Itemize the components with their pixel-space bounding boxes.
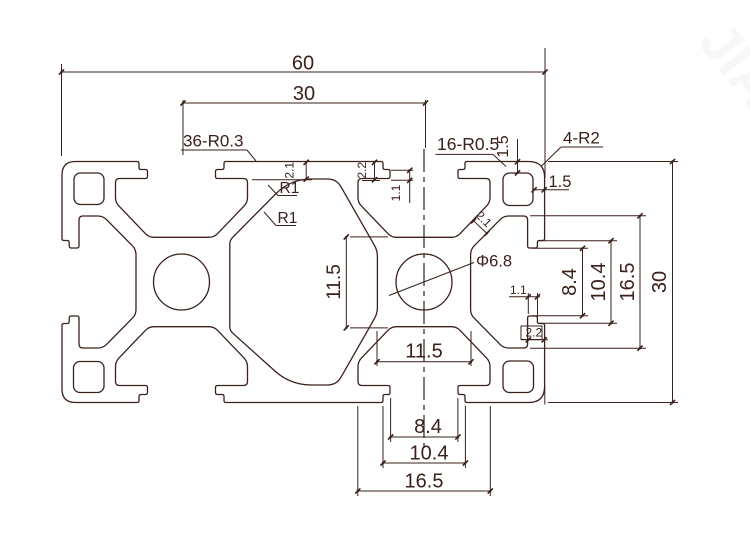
svg-text:1.5: 1.5 xyxy=(495,135,512,157)
svg-text:16.5: 16.5 xyxy=(405,471,444,493)
chamber hole top-right xyxy=(503,173,533,206)
svg-text:1.1: 1.1 xyxy=(389,184,403,201)
svg-text:2.1: 2.1 xyxy=(283,162,297,179)
svg-text:16-R0.5: 16-R0.5 xyxy=(437,134,499,154)
svg-text:8.4: 8.4 xyxy=(414,416,442,438)
svg-text:4-R2: 4-R2 xyxy=(563,129,600,148)
svg-text:Φ6.8: Φ6.8 xyxy=(476,253,512,271)
svg-text:30: 30 xyxy=(293,83,315,105)
dim 60 top xyxy=(61,64,63,156)
dim 11.5 vert mid xyxy=(350,236,388,238)
svg-text:30: 30 xyxy=(649,271,671,293)
chamber hole bottom-right xyxy=(503,361,534,393)
chamber hole top-left xyxy=(74,173,104,205)
dim 10.4 bottom xyxy=(382,406,384,468)
dim 8.4 bottom xyxy=(390,398,392,442)
dim 8.4 right xyxy=(532,247,588,249)
svg-text:60: 60 xyxy=(292,53,314,75)
dim 2.2 top xyxy=(362,180,380,182)
svg-text:16.5: 16.5 xyxy=(617,263,639,302)
aluminium profile outline xyxy=(62,162,545,403)
right bore xyxy=(396,254,452,310)
dim 16.5 right xyxy=(530,215,646,217)
svg-text:R1: R1 xyxy=(280,180,300,197)
label R1 a xyxy=(278,195,297,197)
dim 1.5 horiz chamber right xyxy=(534,189,570,191)
svg-text:36-R0.3: 36-R0.3 xyxy=(183,132,243,151)
label R1 b xyxy=(276,225,296,227)
svg-text:11.5: 11.5 xyxy=(405,341,442,363)
svg-text:2.2: 2.2 xyxy=(526,326,543,340)
dim 2.1 diag web xyxy=(474,221,487,234)
label 36-R0.3 xyxy=(181,149,247,151)
chamber hole bottom-left xyxy=(74,362,105,393)
dim 1.5 vert chamber top xyxy=(517,139,519,173)
svg-text:10.4: 10.4 xyxy=(588,263,610,302)
label 16-R0.5 xyxy=(435,153,493,155)
svg-text:R1: R1 xyxy=(278,210,298,227)
dim 1.1 right slot xyxy=(509,296,540,298)
left bore xyxy=(154,254,210,310)
label 4-R2 xyxy=(561,146,603,148)
dim 11.5 horiz below right bore xyxy=(376,331,378,366)
svg-text:1.5: 1.5 xyxy=(549,173,572,191)
dim 10.4 right xyxy=(538,240,617,242)
dim 2.2 right slot xyxy=(521,326,542,340)
centreline right cell xyxy=(423,149,425,452)
dim 1.1 top xyxy=(391,169,413,171)
dim 16.5 bottom xyxy=(357,406,359,496)
dim 2.1 top xyxy=(252,179,312,181)
label dia 6.8 xyxy=(389,263,474,296)
dim 30 right xyxy=(548,161,678,163)
svg-text:11.5: 11.5 xyxy=(324,264,345,300)
svg-text:8.4: 8.4 xyxy=(559,268,581,296)
svg-text:1.1: 1.1 xyxy=(510,283,527,297)
dim 30 top xyxy=(182,100,184,155)
middle cavity xyxy=(230,179,378,385)
svg-text:2.2: 2.2 xyxy=(355,162,369,179)
svg-text:10.4: 10.4 xyxy=(410,443,449,465)
